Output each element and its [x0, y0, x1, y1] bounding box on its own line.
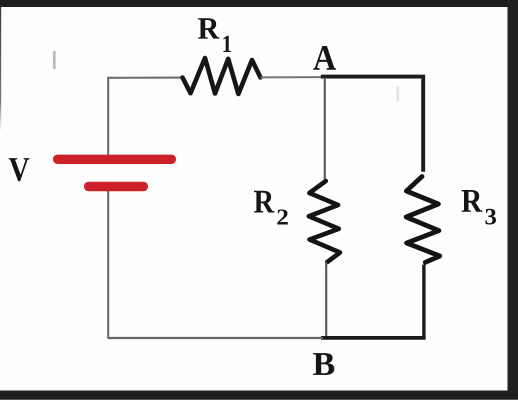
wire: thick bottom from B junction to right corner	[321, 336, 426, 340]
wire: thick top A to top-right corner and down to R3	[321, 77, 423, 172]
battery V plate short	[84, 182, 148, 191]
label R2	[254, 191, 274, 213]
node A	[313, 46, 336, 70]
wire: battery top to top-left corner	[107, 78, 109, 156]
resistor R2	[309, 181, 340, 262]
wire: bottom thin from left corner to B junction	[108, 337, 323, 339]
resistor R3	[406, 177, 440, 263]
label R3	[462, 190, 483, 212]
wire: battery bottom to bottom-left corner	[107, 191, 109, 339]
label V	[9, 158, 30, 181]
wire: R3 down to bottom-right corner	[422, 265, 425, 339]
label R1	[198, 18, 220, 38]
resistor R1	[183, 58, 261, 94]
node B	[313, 353, 334, 375]
wire: R1 to node A	[260, 76, 322, 78]
wire: R2 to bottom wire	[325, 262, 327, 339]
wire: node A down to R2	[324, 78, 326, 182]
battery V plate long	[53, 155, 176, 164]
wire: top horizontal to R1	[107, 77, 183, 79]
